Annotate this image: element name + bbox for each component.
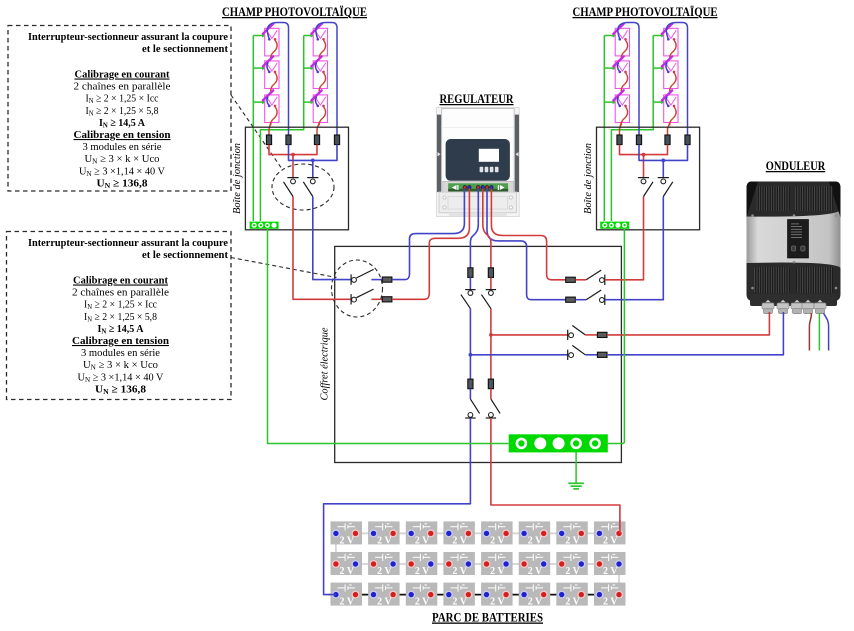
fuse F4 (left junction box) [334,135,339,145]
fuse F3 (left junction box) [314,135,319,145]
battery B32 (2V) [368,583,400,608]
battery B23 (2V) [406,552,438,577]
wire: blue switch down to node and lower fuse [469,309,471,380]
switch: blue disconnector (right junction box) [658,178,673,197]
node: red junction (left) [291,153,295,157]
wire: red fuse to switch [490,277,492,289]
wire: green stub to module L1-2 [253,67,266,69]
svg-text:2 V: 2 V [490,597,505,608]
switch: battery feeder red lower [486,399,500,418]
svg-text:2 chaînes en parallèle: 2 chaînes en parallèle [72,287,169,299]
svg-text:2 V: 2 V [415,535,430,546]
info box: interrupteur-sectionneur (bas) [7,232,232,400]
wire: green frame bus L string2 [260,36,303,222]
fuse F2 (right junction box) [636,135,641,145]
PV module L2-1 [311,24,327,59]
battery B27 (2V) [556,552,588,577]
fuse: onduleur branch blue [597,352,607,357]
PV module L1-2 [263,56,279,91]
wire: onduleur AC output blue [824,313,829,351]
PV module R1-1 [613,24,629,59]
svg-text:UN ≥ 3 ×1,14 × 40 V: UN ≥ 3 ×1,14 × 40 V [78,371,164,384]
wire: string R2 red output to fuse [668,122,670,135]
wire: blue regulator terminal 3 down (battery minus feeder) [470,189,478,268]
svg-text:CHAMP PHOTOVOLTAÏQUE: CHAMP PHOTOVOLTAÏQUE [222,5,367,19]
svg-text:ONDULEUR: ONDULEUR [766,159,826,173]
green terminal strip (coffret) [509,434,608,452]
svg-text:2 V: 2 V [340,597,355,608]
wire: blue switch to fuse [585,354,597,356]
PV module R2-1 [662,24,678,59]
battery B25 (2V) [481,552,512,577]
wire: red battery feeder overlay into row1 terminal [619,520,621,533]
inverter device (onduleur) [747,182,841,314]
wire: onduleur AC output brown [809,313,811,351]
wire: green stub to module L2-3 [304,101,315,103]
svg-text:UN ≥ 3 ×1,14 × 40 V: UN ≥ 3 ×1,14 × 40 V [79,165,165,178]
battery B22 (2V) [368,552,400,577]
regulator device (charge controller) [436,108,519,217]
wire: red out of coffret to battery park [491,418,620,533]
wire: blue from regulator terminal 5 to right row [487,189,566,300]
node: red junction (right) [642,153,646,157]
wire: red from left junction box down into coffret [293,197,351,300]
svg-text:3 modules en série: 3 modules en série [83,141,162,153]
battery B12 (2V) [368,521,400,546]
battery B11 (2V) [331,521,363,546]
svg-text:Interrupteur-sectionneur assu: Interrupteur-sectionneur assurant la cou… [28,31,228,43]
node: red branch to onduleur [489,333,493,337]
dashed ellipse around input switches (coffret) [332,260,383,317]
wire: blue battery feeder overlay into row3 terminal [329,594,336,596]
wire: blue from fuses to junction (right) [639,145,688,161]
wire: green stub to module R1-2 [604,67,616,69]
wire: blue out of coffret to battery park [324,418,471,595]
svg-text:2 V: 2 V [377,535,392,546]
svg-text:2 V: 2 V [528,597,543,608]
wire: green earth from right junction box down to coffret strip [608,229,625,444]
svg-text:3 modules en série: 3 modules en série [81,347,160,359]
PV module L2-2 [311,56,327,91]
fuse: battery feeder red lower [488,379,493,389]
node: blue junction (left) [311,159,315,163]
wire: red from fuses to junction (right) [620,145,668,155]
ground symbol [575,452,577,483]
wire: battery row 3 series links (black) [356,594,600,596]
PV module L2-3 [311,90,327,125]
PV module R2-2 [662,56,678,91]
switch: onduleur branch blue [568,345,586,360]
wire: blue node to onduleur switch [470,354,567,356]
fuse: coffret input red [382,297,392,302]
svg-text:2 V: 2 V [415,566,430,577]
svg-text:2 V: 2 V [528,535,543,546]
fuse F4 (right junction box) [685,135,690,145]
switch: red disconnector (left junction box) [284,178,299,197]
wire: battery row1-row2 link (left, gray) [335,533,337,564]
wire: string L2 blue return (over the top, down right side) [316,23,337,136]
svg-text:2 V: 2 V [377,597,392,608]
wire: red from bar out of coffret up to right junction box [605,197,644,280]
switch: coffret input blue (in ellipse) [351,269,374,284]
wire: string R1 blue return (over the top, down right side) [618,23,639,136]
wire: red from fuses to junction (left) [269,145,317,155]
svg-text:2 V: 2 V [415,597,430,608]
svg-text:2 V: 2 V [452,566,467,577]
fuse F1 (right junction box) [617,135,622,145]
wire: string L2 red output to fuse [317,122,319,135]
wire: green stub to module R2-1 [653,35,665,37]
svg-text:Calibrage en tension: Calibrage en tension [72,335,169,347]
svg-text:2 chaînes en parallèle: 2 chaînes en parallèle [74,81,171,93]
wire: green frame bus R string1 [603,36,605,222]
battery B28 (2V) [594,552,626,577]
fuse: onduleur branch red [597,332,607,337]
fuse: coffret input blue [382,277,392,282]
battery B14 (2V) [443,521,475,546]
wire: blue from left junction box down into coffret [313,197,351,280]
wire: red from regulator terminal 6 to right row [491,189,565,280]
wire: green stub to module L2-1 [304,35,315,37]
battery B33 (2V) [406,583,438,608]
battery B37 (2V) [556,583,588,608]
wire: blue switch to fuse (coffret input) [371,279,382,281]
PV module L1-3 [263,90,279,125]
battery B34 (2V) [443,583,475,608]
coffret electrique box [335,246,622,462]
svg-text:Boîte de jonction: Boîte de jonction [232,143,243,214]
green terminal strip (right junction box) [600,222,629,229]
svg-text:UN ≥ 136,8: UN ≥ 136,8 [95,383,147,396]
PV module L1-1 [263,24,279,59]
wire: string R2 blue return (over the top, down right side) [666,23,687,136]
switch: battery feeder blue upper [461,290,476,309]
info box: interrupteur-sectionneur (haut) [8,26,231,192]
switch: blue disconnector (left junction box) [303,178,318,197]
switch: battery feeder red upper [481,290,496,309]
svg-text:2 V: 2 V [565,566,580,577]
wire: green stub to module R2-2 [653,67,665,69]
pointer line: box2 to ellipse in coffret [231,258,337,278]
wire: green frame bus R string2 [611,36,653,222]
battery B16 (2V) [519,521,551,546]
node: blue junction (right) [661,159,665,163]
wire: string R1 red output to fuse [620,122,622,135]
wire: battery row2-row3 link (right, gray) [618,564,620,595]
svg-text:2 V: 2 V [340,566,355,577]
green terminal strip (left junction box) [250,222,279,229]
switch: coffret output blue to right junction box [586,290,605,305]
PV module R1-2 [613,56,629,91]
wire: onduleur AC output green [818,313,820,351]
wire: battery row 1 series links (gray) [356,532,600,534]
wire: red fuse up and right to regulator terminal 2 [392,189,470,300]
wire: red switch to fuse (coffret input) [371,298,382,300]
svg-text:UN ≥ 136,8: UN ≥ 136,8 [97,177,149,190]
wire: green stub to module R1-1 [604,35,616,37]
fuse F2 (left junction box) [286,135,291,145]
wire: red lower fuse to switch [490,389,492,399]
wire: blue to onduleur DC input [607,312,783,355]
svg-text:2 V: 2 V [565,535,580,546]
fuse: coffret to right junction box red [566,277,576,282]
dashed ellipse around switches (left junction box) [272,164,334,210]
battery B31 (2V) [331,583,363,608]
fuse: battery feeder red upper [488,268,493,278]
fuse: battery feeder blue upper [468,268,473,278]
wire: red fuse to switch (right row) [575,279,586,281]
battery B13 (2V) [406,521,438,546]
svg-text:CHAMP PHOTOVOLTAÏQUE: CHAMP PHOTOVOLTAÏQUE [573,5,718,19]
PV module R2-3 [662,90,678,125]
svg-text:et le sectionnement: et le sectionnement [142,249,228,261]
svg-text:2 V: 2 V [377,566,392,577]
switch: onduleur branch red [568,326,586,341]
svg-text:Calibrage en courant: Calibrage en courant [73,275,168,287]
wire: blue fuse to switch (right row) [575,299,586,301]
svg-text:IN ≥ 2 × 1,25 × 5,8: IN ≥ 2 × 1,25 × 5,8 [84,311,157,324]
switch: coffret input red (in ellipse) [351,289,374,304]
svg-text:IN ≥ 2 × 1,25 × 5,8: IN ≥ 2 × 1,25 × 5,8 [86,105,159,118]
switch: red disconnector (right junction box) [638,178,653,197]
wire: green frame bus L string1 [252,36,254,222]
wire: red switch to fuse [585,334,597,336]
regulator terminals (6 dots) [463,186,493,190]
junction box left [245,127,348,230]
battery B35 (2V) [481,583,512,608]
wire: green stub to module R2-3 [653,101,665,103]
svg-text:2 V: 2 V [340,535,355,546]
svg-text:et le sectionnement: et le sectionnement [142,43,228,55]
battery B18 (2V) [594,521,626,546]
svg-text:Calibrage en courant: Calibrage en courant [75,69,170,81]
battery B36 (2V) [519,583,551,608]
svg-text:2 V: 2 V [603,566,618,577]
wire: blue fuse up and right to regulator terminal 1 [392,189,465,280]
wire: red switch down to node and lower fuse [490,309,492,380]
wire: blue lower fuse to switch [469,389,471,399]
wire: string L1 red output to fuse [269,122,271,135]
svg-text:2 V: 2 V [603,535,618,546]
svg-text:IN ≥ 2 × 1,25 × Icc: IN ≥ 2 × 1,25 × Icc [86,93,159,106]
svg-text:2 V: 2 V [452,535,467,546]
svg-text:IN ≥ 2 × 1,25 × Icc: IN ≥ 2 × 1,25 × Icc [84,299,157,312]
wire: blue from bar out of coffret up to right junction box [605,197,664,300]
svg-text:Calibrage en tension: Calibrage en tension [74,129,171,141]
pointer line: box1 to ellipse in left junction box [231,95,281,168]
wire: battery row 2 series links (gray) [356,563,600,565]
PV module R1-3 [613,90,629,125]
fuse F3 (right junction box) [665,135,670,145]
battery B17 (2V) [556,521,588,546]
battery B21 (2V) [331,552,363,577]
switch: coffret output red to right junction box [586,270,605,285]
wire: green stub to module R1-3 [604,101,616,103]
switch: battery feeder blue lower [465,399,479,418]
wire: green stub to module L2-2 [304,67,315,69]
fuse: coffret to right junction box blue [566,297,576,302]
wire: red to onduleur DC input [607,312,769,335]
junction box right [597,127,700,230]
wire: red node to onduleur switch [491,334,568,336]
node: blue branch to onduleur [469,353,473,357]
svg-text:REGULATEUR: REGULATEUR [440,92,515,106]
svg-text:Coffret électrique: Coffret électrique [320,327,331,400]
svg-text:2 V: 2 V [603,597,618,608]
svg-text:2 V: 2 V [490,566,505,577]
svg-text:2 V: 2 V [565,597,580,608]
battery B26 (2V) [519,552,551,577]
svg-text:2 V: 2 V [452,597,467,608]
wire: green stub to module L1-3 [253,101,266,103]
wire: blue fuse to switch [469,277,471,289]
svg-text:Interrupteur-sectionneur assu: Interrupteur-sectionneur assurant la cou… [28,237,228,249]
fuse F1 (left junction box) [266,135,271,145]
battery B15 (2V) [481,521,512,546]
svg-text:2 V: 2 V [490,535,505,546]
battery B24 (2V) [443,552,475,577]
fuse: battery feeder blue lower [468,379,473,389]
wire: blue from fuses to junction (left) [289,145,338,161]
wire: red regulator terminal 4 down (battery plus feeder) [483,189,491,268]
wire: green stub to module L1-1 [253,35,266,37]
wire: green earth from left junction box to coffret strip [268,229,509,444]
svg-text:2 V: 2 V [528,566,543,577]
wire: string L1 blue return (over the top, down right side) [267,23,288,136]
battery B38 (2V) [594,583,626,608]
svg-text:Boîte de jonction: Boîte de jonction [583,143,594,214]
svg-text:PARC DE BATTERIES: PARC DE BATTERIES [432,610,543,625]
